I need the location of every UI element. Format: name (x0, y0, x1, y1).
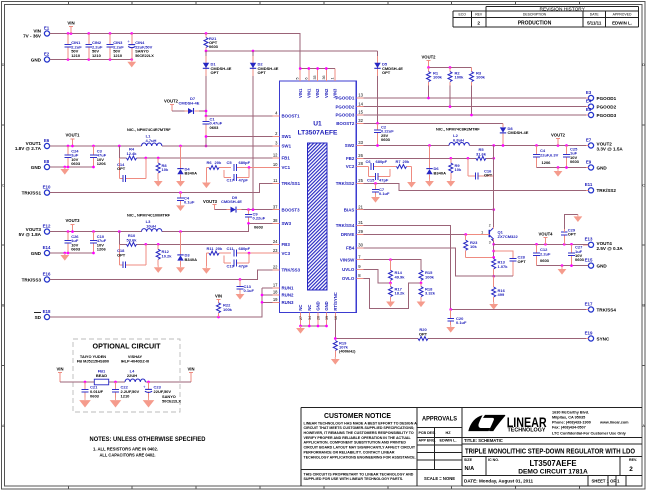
ground C20 (446, 325, 455, 333)
svg-text:VOUT1: VOUT1 (66, 133, 81, 138)
notes text (90, 436, 206, 457)
svg-text:E16: E16 (43, 272, 51, 277)
terminal E9 GND (583, 159, 607, 170)
svg-text:50CE22LX: 50CE22LX (162, 399, 181, 404)
U1 pin 17 RUN1 (273, 283, 295, 291)
inductor L2 6.8uH (449, 133, 469, 145)
diode D7 CMDSH-4E (172, 96, 206, 114)
svg-text:VINSW: VINSW (340, 257, 355, 262)
ground VC2 (407, 180, 416, 188)
ground C4 (176, 203, 185, 211)
ferrite bead FB1 (94, 368, 108, 384)
svg-text:PGOOD2: PGOOD2 (336, 104, 355, 109)
U1 pin 13 PGOOD1 (336, 93, 364, 101)
svg-text:VIN: VIN (57, 367, 64, 372)
svg-text:1210: 1210 (121, 393, 131, 398)
svg-text:6.8uH: 6.8uH (453, 138, 464, 143)
svg-text:16: 16 (334, 316, 338, 320)
terminal E1 VIN (23, 26, 53, 39)
ground R9 (446, 179, 455, 187)
resistor R12 10.2k (156, 244, 172, 265)
svg-text:UVLO: UVLO (342, 267, 355, 272)
wire VOUT4 rail (494, 243, 589, 246)
wire VOUT1/SW1 rail (50, 145, 273, 148)
svg-text:EDWIN L.: EDWIN L. (612, 20, 632, 25)
svg-text:OPTIONAL CIRCUIT: OPTIONAL CIRCUIT (93, 342, 161, 351)
svg-text:REV: REV (475, 13, 483, 17)
svg-text:3.3V @ 1.5A: 3.3V @ 1.5A (597, 147, 624, 152)
svg-text:680pF: 680pF (376, 159, 388, 164)
svg-text:R11: R11 (207, 246, 215, 251)
svg-text:BEAD: BEAD (96, 373, 107, 378)
svg-text:Phone: (408)433-1900: Phone: (408)433-1900 (552, 420, 591, 424)
svg-text:+: + (127, 39, 130, 44)
svg-text:DEMO CIRCUIT 1781A: DEMO CIRCUIT 1781A (518, 469, 588, 476)
svg-text:100k: 100k (476, 75, 486, 80)
svg-text:VIN: VIN (215, 294, 222, 299)
terminal E8 GND (31, 159, 53, 170)
svg-text:24: 24 (273, 239, 278, 244)
svg-text:(400kHz): (400kHz) (339, 349, 356, 354)
svg-text:NIC., NPM74C8R2MTRF: NIC., NPM74C8R2MTRF (436, 127, 480, 132)
capacitor C9 0.22uF (245, 210, 266, 230)
svg-text:TITLE: SCHEMATIC: TITLE: SCHEMATIC (464, 438, 503, 443)
U1 pin 6 VIN1 (304, 69, 311, 99)
svg-text:18.2k: 18.2k (395, 291, 406, 296)
U1 pin 34 NC (307, 305, 312, 326)
svg-text:21: 21 (358, 204, 363, 209)
svg-text:C11: C11 (227, 246, 235, 251)
VC1 comp network R6 C5 C17 (206, 160, 272, 180)
U1 pin 9 UVLO (342, 264, 363, 272)
svg-text:47pF: 47pF (239, 178, 249, 183)
svg-text:SW3: SW3 (282, 221, 292, 226)
capacitor C14 OPT (117, 158, 146, 182)
svg-text:22uF,6.3V: 22uF,6.3V (540, 152, 559, 157)
capacitor C18 OPT (117, 244, 146, 268)
resistor R18 3.32k (419, 283, 436, 300)
U1 pin 7 VINSW (340, 254, 363, 262)
svg-text:HZ: HZ (445, 431, 451, 435)
svg-text:E19: E19 (585, 330, 593, 335)
svg-text:OPT: OPT (568, 232, 577, 237)
resistor R13 1.07k (492, 259, 509, 276)
capacitor C17 47pF (224, 168, 249, 183)
svg-text:20k: 20k (403, 159, 410, 164)
svg-text:E13: E13 (585, 237, 593, 242)
wire TRK/SS4 net (363, 226, 586, 311)
U1 exposed pad ground rail (299, 325, 328, 328)
svg-text:50CE22LX: 50CE22LX (135, 54, 154, 58)
capacitor CIN2 (85, 34, 103, 60)
U1 pin 32 BOOST2 (336, 118, 363, 126)
ground C23 (143, 398, 155, 408)
svg-text:E5: E5 (586, 107, 592, 112)
svg-text:GND: GND (597, 165, 608, 170)
U1 pin 22 TRK/SS3 (273, 265, 301, 273)
svg-text:1.8V @ 2.7A: 1.8V @ 2.7A (15, 146, 42, 151)
capacitor C16 OPT (468, 158, 494, 179)
svg-text:OPT: OPT (211, 70, 220, 75)
capacitor C4 22uF output (533, 146, 558, 168)
U1 pin 27 NC (298, 305, 303, 326)
svg-text:TRK/SS4: TRK/SS4 (597, 307, 617, 312)
svg-text:E18: E18 (43, 309, 51, 314)
U1 pin 29 DRIVE (341, 229, 364, 237)
svg-text:100k: 100k (433, 75, 443, 80)
svg-text:VOUT2: VOUT2 (551, 133, 566, 138)
svg-text:SYNC: SYNC (597, 336, 610, 341)
capacitor C15 47pF (367, 167, 390, 183)
svg-text:E17: E17 (585, 301, 593, 306)
svg-text:APPROVED: APPROVED (613, 13, 632, 17)
node VIN stub at R22 (215, 294, 222, 303)
svg-text:THIS CIRCUIT IS PROPRIETARY TO: THIS CIRCUIT IS PROPRIETARY TO LINEAR TE… (304, 472, 414, 476)
svg-text:PRODUCTION: PRODUCTION (518, 20, 552, 26)
svg-text:SW2: SW2 (345, 143, 355, 148)
svg-text:DATE: DATE (590, 13, 600, 17)
svg-text:APPROVALS: APPROVALS (422, 417, 457, 423)
svg-text:0.22uF: 0.22uF (253, 216, 266, 221)
svg-text:100k: 100k (223, 307, 233, 312)
svg-text:36: 36 (322, 76, 326, 80)
svg-text:B340A: B340A (434, 170, 447, 175)
svg-text:22: 22 (273, 265, 278, 270)
wire SW2/VOUT2 rail (363, 144, 586, 147)
ground R8 (154, 179, 163, 187)
wire optional circuit rail (60, 381, 191, 384)
node VOUT4 stub (539, 231, 554, 244)
wire pullup rail (427, 66, 471, 69)
wire D2 column VIN to BOOST3 (252, 51, 254, 210)
ground symbol below U1 (296, 326, 305, 334)
U1 pin 31 TRK/SS4 (336, 220, 364, 228)
svg-text:SD: SD (35, 315, 42, 320)
svg-text:37: 37 (273, 204, 278, 209)
capacitor C25 1uF (563, 146, 580, 168)
U1 pin 38 SW3 (273, 218, 292, 226)
svg-text:BOOST1: BOOST1 (282, 114, 301, 119)
svg-text:ZX7CM322: ZX7CM322 (498, 234, 519, 239)
VC2 comp network C6 R7 C15 (363, 159, 411, 180)
svg-text:IC NO.: IC NO. (488, 458, 499, 462)
capacitor C28 OPT (494, 251, 527, 276)
svg-text:680pF: 680pF (239, 246, 251, 251)
svg-text:TRK/SS4: TRK/SS4 (336, 223, 355, 228)
svg-text:EDWIN L.: EDWIN L. (439, 438, 456, 442)
terminal E18 SD (34, 309, 53, 320)
svg-text:20k: 20k (215, 160, 222, 165)
U1 pin 37 BOOST3 (273, 204, 301, 212)
svg-text:SCALE = NONE: SCALE = NONE (424, 476, 455, 481)
U1 pin 16 RT/SYNC (333, 292, 338, 338)
svg-text:2.2uF: 2.2uF (540, 251, 551, 256)
terminal E7 VOUT2 (583, 137, 623, 151)
svg-text:2: 2 (629, 466, 633, 473)
wire TRK/SS2 net (363, 182, 586, 190)
wire ch1 gnd return (50, 166, 95, 169)
svg-text:VIN1: VIN1 (298, 88, 303, 98)
op-amp U1 regulator IC LT3507AEFE body (280, 81, 357, 313)
svg-text:33: 33 (358, 140, 363, 145)
U1 pin 19 RUN3 (273, 297, 295, 305)
svg-text:100k: 100k (455, 75, 465, 80)
svg-text:2: 2 (477, 20, 480, 26)
svg-text:FB3: FB3 (282, 242, 291, 247)
capacitor C29 OPT (561, 214, 578, 244)
svg-text:2.5V @ 0.3A: 2.5V @ 0.3A (597, 246, 624, 251)
ground R18 (417, 300, 426, 308)
svg-text:ECO: ECO (459, 13, 467, 17)
svg-text:BIAS: BIAS (344, 207, 355, 212)
svg-text:NOTES: UNLESS OTHERWISE SPECI: NOTES: UNLESS OTHERWISE SPECIFIED (90, 436, 206, 443)
svg-text:LT3507AEFE: LT3507AEFE (529, 459, 576, 468)
wire BIAS net (363, 208, 495, 211)
svg-text:53.6k: 53.6k (126, 237, 137, 242)
svg-text:BOOST2: BOOST2 (336, 121, 355, 126)
terminal E12 VOUT3 (19, 224, 53, 237)
U1 pin 14 PGOOD2 (336, 101, 364, 109)
terminal E19 SYNC (583, 330, 610, 341)
svg-text:PGOOD1: PGOOD1 (336, 96, 355, 101)
resistor R23 10k (464, 235, 494, 258)
svg-text:E8: E8 (44, 159, 50, 164)
capacitor C23 22UF polarized (143, 382, 181, 404)
svg-text:E14: E14 (43, 245, 51, 250)
svg-text:6: 6 (304, 78, 308, 80)
svg-text:ALL CAPACITORS ARE 0402.: ALL CAPACITORS ARE 0402. (100, 452, 156, 457)
capacitor C21 0.01UF (82, 382, 104, 398)
svg-text:10uH: 10uH (146, 224, 156, 229)
U1 pin 1 VIN3 (330, 69, 337, 99)
svg-text:TRK/SS3: TRK/SS3 (282, 268, 301, 273)
wire FB2 line (363, 146, 495, 160)
U1 pin 33 SW2 (345, 140, 364, 148)
svg-text:C6: C6 (366, 159, 372, 164)
svg-text:R6: R6 (207, 160, 213, 165)
ground R17 (386, 300, 395, 308)
svg-text:4.7uH: 4.7uH (146, 138, 157, 143)
wire FB4 net (363, 248, 493, 276)
U1 pin 30 FB4 (346, 243, 364, 251)
capacitor C24 (65, 146, 81, 167)
svg-text:N/A: N/A (465, 466, 475, 472)
wire SYNC net (334, 337, 586, 340)
svg-text:10k: 10k (455, 167, 462, 172)
svg-text:U1: U1 (313, 121, 322, 128)
svg-text:0.1uF: 0.1uF (456, 320, 467, 325)
svg-text:E4: E4 (586, 99, 592, 104)
svg-text:FB4: FB4 (346, 246, 355, 251)
U1 pin 28 VC2 (346, 161, 364, 169)
svg-text:TECHNOLOGY: TECHNOLOGY (508, 427, 547, 433)
svg-text:1. ALL RESISTORS ARE IN 0402.: 1. ALL RESISTORS ARE IN 0402. (93, 447, 158, 452)
wire D5 column VIN to BOOST2 (377, 51, 379, 123)
U1 pin 15 PGOOD3 (336, 110, 364, 118)
svg-text:CMDSH-4E: CMDSH-4E (221, 199, 242, 204)
capacitor C7 0.1uF (372, 184, 390, 197)
terminal E15 GND (583, 258, 607, 269)
svg-text:PGOOD2: PGOOD2 (597, 104, 617, 109)
wire VOUT2 gnd (537, 166, 587, 169)
svg-text:31: 31 (358, 220, 363, 225)
svg-text:CUSTOMER NOTICE: CUSTOMER NOTICE (324, 413, 391, 420)
node VOUT3 stub at D9 (203, 199, 218, 209)
capacitor C3 (90, 146, 107, 167)
ground C7 (371, 195, 380, 203)
resistor R14 49.9k (389, 260, 406, 283)
svg-text:3: 3 (489, 240, 491, 244)
wire GND return input (50, 58, 133, 61)
diode D1 CMDSH-4E (203, 56, 232, 76)
U1 pin 3 SW1 (273, 141, 292, 149)
svg-text:CMDSH-4E: CMDSH-4E (508, 130, 529, 135)
svg-text:E10: E10 (43, 185, 51, 190)
ground below CIN4 (127, 60, 136, 68)
capacitor C26 (65, 232, 81, 253)
svg-text:14: 14 (358, 101, 363, 106)
node VOUT1 stub (66, 133, 81, 146)
resistor R16 499 (492, 275, 506, 302)
svg-text:DATE: Monday, August 01, 2011: DATE: Monday, August 01, 2011 (464, 479, 534, 484)
svg-text:E1: E1 (44, 26, 50, 31)
U1 pin 12 FB1 (273, 153, 291, 161)
title block rows (462, 438, 642, 486)
node VOUT3 stub (66, 218, 81, 231)
diode D5 CMDSH-4E (374, 56, 403, 76)
svg-text:GND: GND (597, 263, 608, 268)
svg-text:7V - 36V: 7V - 36V (23, 34, 42, 39)
svg-text:20k: 20k (216, 246, 223, 251)
svg-text:100k: 100k (425, 274, 435, 279)
svg-text:SW1: SW1 (282, 144, 292, 149)
svg-text:Milpitas, CA 95035: Milpitas, CA 95035 (552, 415, 585, 419)
wire TRK/SS3 net (49, 270, 272, 281)
svg-text:0603: 0603 (210, 125, 220, 130)
wire PGOOD3 net (363, 114, 586, 117)
U1 pin 24 FB3 (273, 239, 291, 247)
wire D1 column VIN to BOOST1 (205, 51, 207, 116)
inductor L4 22UH (125, 368, 145, 382)
U1 pin 20 GND (316, 301, 321, 326)
wire SD / RUN net (49, 288, 272, 319)
wire VINSW net (363, 258, 421, 270)
terminal E3 PGOOD1 (583, 90, 617, 101)
wire PGOOD2 net (363, 105, 586, 108)
svg-text:VC1: VC1 (282, 165, 291, 170)
terminal E2 GND (31, 52, 53, 63)
svg-text:TRIPLE MONOLITHIC STEP-DOWN RE: TRIPLE MONOLITHIC STEP-DOWN REGULATOR WI… (465, 446, 635, 455)
svg-text:0.1uF: 0.1uF (184, 200, 195, 205)
wire FB3 line (119, 232, 272, 246)
svg-text:2: 2 (489, 224, 491, 228)
svg-text:CMDSH-4E: CMDSH-4E (179, 101, 200, 106)
svg-text:TECHNOLOGY APPLICATIONS ENGINE: TECHNOLOGY APPLICATIONS ENGINEERING FOR … (304, 455, 416, 459)
wire VIN pins rail (299, 67, 335, 70)
capacitor C1 (203, 116, 223, 137)
resistor R2 100k (448, 68, 464, 107)
svg-text:15: 15 (358, 110, 363, 115)
svg-text:47pF: 47pF (239, 263, 249, 268)
svg-text:0.1uF: 0.1uF (244, 288, 255, 293)
svg-text:BOOST3: BOOST3 (282, 207, 301, 212)
svg-text:5V @ 1.8A: 5V @ 1.8A (19, 232, 42, 237)
svg-text:1206: 1206 (97, 247, 107, 252)
svg-text:LT3507AEFE: LT3507AEFE (298, 130, 338, 137)
svg-text:49.9k: 49.9k (395, 274, 406, 279)
svg-text:5/11/11: 5/11/11 (587, 20, 602, 25)
svg-text:E11: E11 (585, 182, 593, 187)
svg-text:E7: E7 (586, 137, 592, 142)
ground VC1 (202, 181, 211, 189)
svg-text:E9: E9 (586, 159, 592, 164)
svg-text:0603: 0603 (254, 224, 264, 229)
ground C21 (79, 398, 91, 408)
terminal E5 PGOOD3 (583, 107, 617, 118)
svg-text:47pF: 47pF (379, 177, 389, 182)
svg-text:DESCRIPTION: DESCRIPTION (523, 13, 547, 17)
svg-text:31.6k: 31.6k (476, 151, 487, 156)
svg-text:SIZE: SIZE (464, 458, 473, 462)
svg-text:1.07k: 1.07k (498, 264, 509, 269)
Linear Technology logo (468, 415, 490, 431)
svg-text:0603: 0603 (570, 159, 580, 164)
U1 pin 8 OVLO (342, 273, 363, 281)
svg-text:1206: 1206 (97, 161, 107, 166)
resistor R5 31.6k (476, 147, 487, 160)
capacitor CIN1 (65, 34, 83, 60)
terminal E4 PGOOD2 (583, 99, 617, 110)
wire SW3 pin link (247, 222, 272, 225)
svg-text:38: 38 (273, 218, 278, 223)
svg-text:0603: 0603 (540, 258, 550, 263)
svg-text:1206: 1206 (542, 160, 552, 165)
svg-text:5: 5 (296, 78, 300, 80)
svg-text:VIN2: VIN2 (315, 88, 320, 98)
ground VOUT2 output (554, 168, 563, 177)
svg-text:VOUT4: VOUT4 (539, 231, 554, 236)
svg-text:NIC., NPM74C4R7MTRF: NIC., NPM74C4R7MTRF (127, 127, 171, 132)
terminal E6 VOUT1 (15, 138, 53, 151)
terminal E11 TRK/SS2 (583, 182, 616, 193)
svg-text:VOUT2: VOUT2 (422, 55, 437, 60)
wire BOOST2 net (363, 122, 503, 125)
svg-text:29: 29 (358, 229, 363, 234)
svg-text:VIN: VIN (188, 367, 195, 372)
diode D6 B340A catch (426, 146, 446, 180)
wire VOUT2 to Q1 collector (493, 146, 495, 228)
svg-text:TRK/SS1: TRK/SS1 (22, 190, 42, 195)
svg-text:0603: 0603 (90, 393, 100, 398)
svg-text:C15: C15 (367, 177, 375, 182)
U1 pin 4 BOOST1 (273, 111, 301, 119)
svg-text:OPT: OPT (484, 173, 493, 178)
svg-text:OPT: OPT (117, 252, 126, 257)
revision history table (453, 6, 639, 27)
wire UVLO net (363, 270, 392, 285)
svg-text:RUN2: RUN2 (282, 293, 295, 298)
svg-text:1210: 1210 (71, 53, 81, 58)
svg-text:HOWEVER, IT REMAINS THE CUSTOM: HOWEVER, IT REMAINS THE CUSTOMERS RESPON… (304, 431, 414, 435)
svg-text:FB1: FB1 (282, 156, 291, 161)
svg-text:18: 18 (273, 290, 278, 295)
capacitor C4 0.1uF (177, 193, 195, 205)
wire DRIVE net (363, 233, 489, 236)
U1 pin 10 VC1 (273, 162, 291, 170)
svg-text:10k: 10k (470, 244, 477, 249)
svg-text:NC: NC (298, 305, 303, 311)
svg-text:PGOOD1: PGOOD1 (597, 96, 617, 101)
